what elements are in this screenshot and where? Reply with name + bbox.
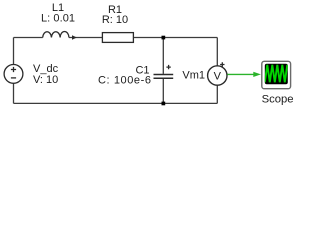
svg-text:V: 10: V: 10	[33, 74, 58, 86]
wire: inductor to resistor	[69, 37, 102, 39]
node junction dot top	[162, 36, 166, 40]
inductor current arrow	[72, 35, 77, 40]
scope screen	[265, 64, 288, 85]
svg-text:V: V	[214, 71, 222, 83]
capacitor plus polarity mark	[166, 65, 170, 69]
green signal wire to scope	[227, 73, 254, 75]
node junction dot bottom	[162, 102, 166, 106]
voltmeter plus polarity mark	[220, 62, 224, 66]
voltmeter Vm1 circle	[208, 66, 227, 85]
svg-text:R: 10: R: 10	[102, 14, 128, 26]
inductor L1 coil	[43, 32, 69, 38]
svg-text:C: 100e-6: C: 100e-6	[98, 74, 151, 86]
wire: bottom horizontal	[14, 102, 218, 104]
wire: capacitor branch vertical	[162, 38, 164, 104]
voltage source V_dc circle	[4, 65, 23, 84]
svg-text:V_dc: V_dc	[33, 63, 59, 75]
wire: resistor to top-right corner	[134, 37, 218, 39]
green arrowhead	[253, 72, 261, 77]
svg-text:Scope: Scope	[262, 94, 294, 106]
scope waveform	[265, 65, 288, 83]
svg-text:Vm1: Vm1	[182, 70, 205, 82]
plus sign inside source	[11, 67, 16, 72]
wire: right vertical (voltmeter branch)	[216, 38, 218, 104]
wire: left vertical through source	[13, 38, 15, 104]
scope block outer frame	[262, 61, 291, 88]
capacitor C1 plates	[154, 75, 174, 79]
resistor R1 box	[102, 33, 133, 43]
svg-text:L: 0.01: L: 0.01	[41, 13, 75, 25]
minus sign inside source	[11, 77, 16, 79]
wire: top-left segment from corner to inductor	[14, 37, 43, 39]
